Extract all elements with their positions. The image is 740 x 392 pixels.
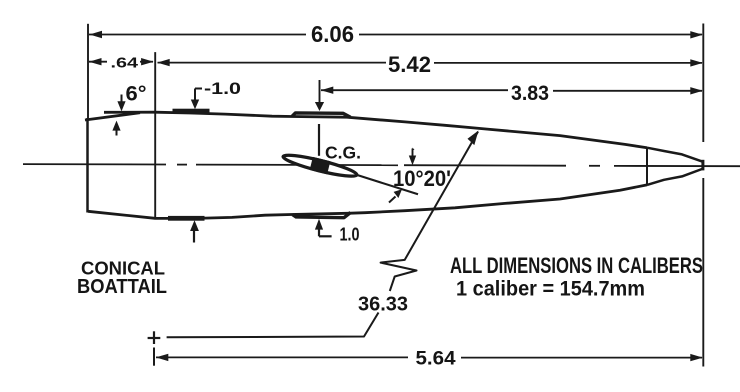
- svg-text:6°: 6°: [126, 83, 147, 106]
- extension line left x88: [87, 24, 89, 118]
- dim line .64: [89, 61, 107, 63]
- 36.33 upper leader with arrowhead to ogive: [381, 132, 478, 291]
- svg-text:5.64: 5.64: [416, 348, 456, 369]
- 5.64 left extension: [153, 348, 155, 366]
- rotating band top 1: [173, 109, 210, 114]
- svg-text:1.0: 1.0: [340, 224, 360, 244]
- 10 20 oblique line: [358, 175, 418, 194]
- 3.83 station vertical with down arrow: [319, 80, 321, 102]
- bottom arrow at x193: [193, 230, 195, 243]
- rotating band top 2: [292, 113, 351, 117]
- C.G. ellipse: [282, 150, 359, 181]
- 10 20 angle: down arrow on centerline: [413, 148, 415, 151]
- dim line 5.64: [156, 356, 408, 358]
- svg-text:3.83: 3.83: [511, 82, 549, 105]
- base vertical: [86, 118, 89, 213]
- 1.0 leader bottom right: [318, 228, 320, 236]
- 6 degree arrows: [121, 95, 123, 104]
- svg-text:-1.0: -1.0: [204, 79, 241, 98]
- svg-text:6.06: 6.06: [311, 21, 354, 47]
- fuze junction vertical: [646, 148, 648, 186]
- 36.33 lower leader to plus: [167, 313, 379, 338]
- dim line 5.42: [158, 62, 387, 64]
- C.G. tick: [318, 124, 320, 156]
- extension line x155: [154, 52, 156, 218]
- rotating band bottom 1: [168, 216, 205, 221]
- plus mark: [148, 337, 161, 339]
- fuze nose cone: [647, 148, 702, 162]
- rotating band bottom 2: [293, 213, 351, 218]
- nose tip face: [701, 160, 704, 171]
- svg-text:.64: .64: [111, 54, 139, 71]
- projectile boattail top edge: [85, 113, 140, 120]
- centerline: [23, 164, 740, 166]
- svg-text:36.33: 36.33: [358, 293, 408, 315]
- projectile outline bottom: [88, 185, 647, 219]
- svg-text:5.42: 5.42: [388, 52, 431, 77]
- svg-text:C.G.: C.G.: [325, 142, 361, 162]
- svg-text:ALL DIMENSIONS IN CALIBERS: ALL DIMENSIONS IN CALIBERS: [450, 253, 703, 278]
- dim line 3.83: [321, 89, 508, 91]
- -1.0 leader top left: [194, 89, 196, 102]
- svg-text:10°20': 10°20': [393, 166, 451, 191]
- 10 20 small arrow on oblique: [389, 197, 396, 203]
- svg-text:1 caliber = 154.7mm: 1 caliber = 154.7mm: [456, 278, 645, 301]
- svg-text:BOATTAIL: BOATTAIL: [77, 276, 167, 298]
- dim line 6.06: [89, 34, 306, 36]
- extension line right x703.5: [702, 24, 704, 143]
- projectile outline top: [104, 112, 647, 148]
